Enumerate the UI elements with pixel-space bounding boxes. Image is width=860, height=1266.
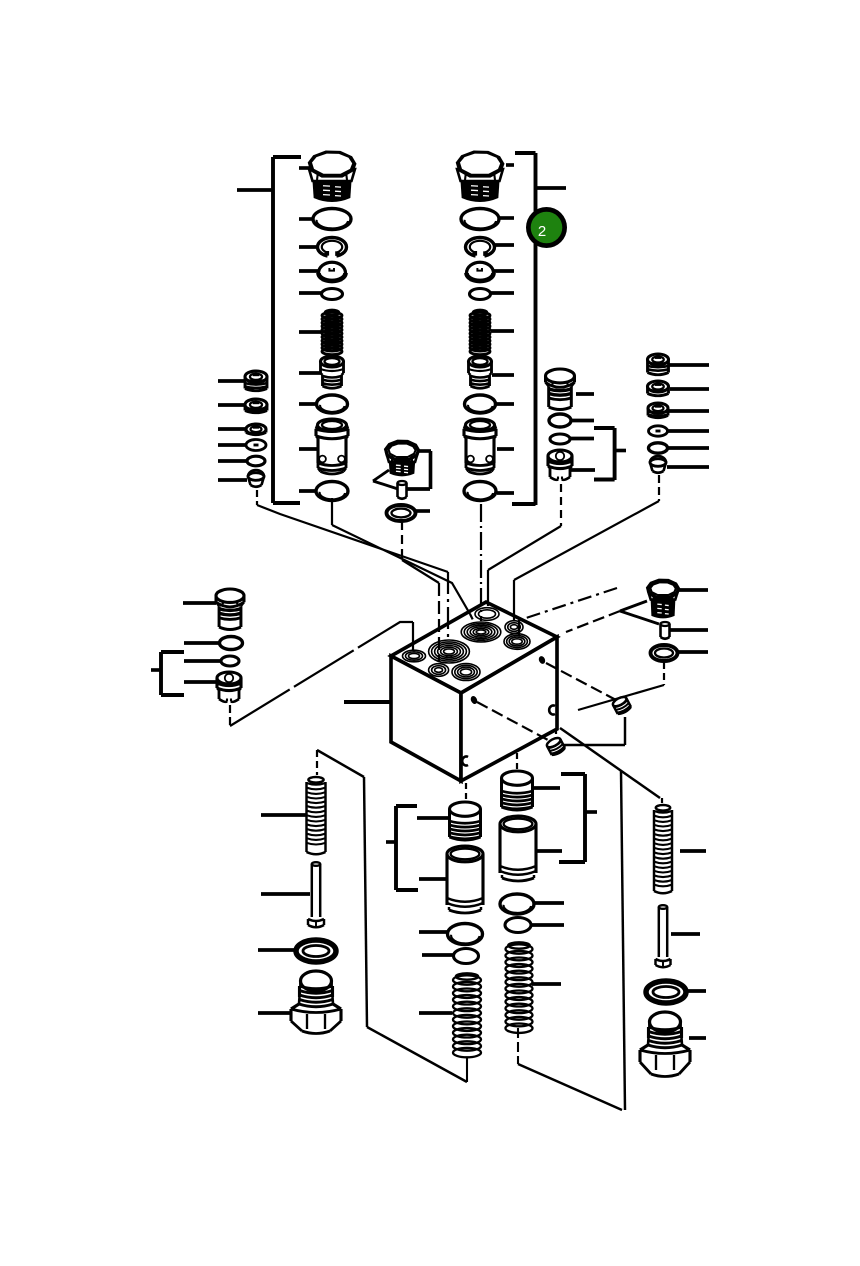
svg-text:2: 2 [538,223,546,240]
